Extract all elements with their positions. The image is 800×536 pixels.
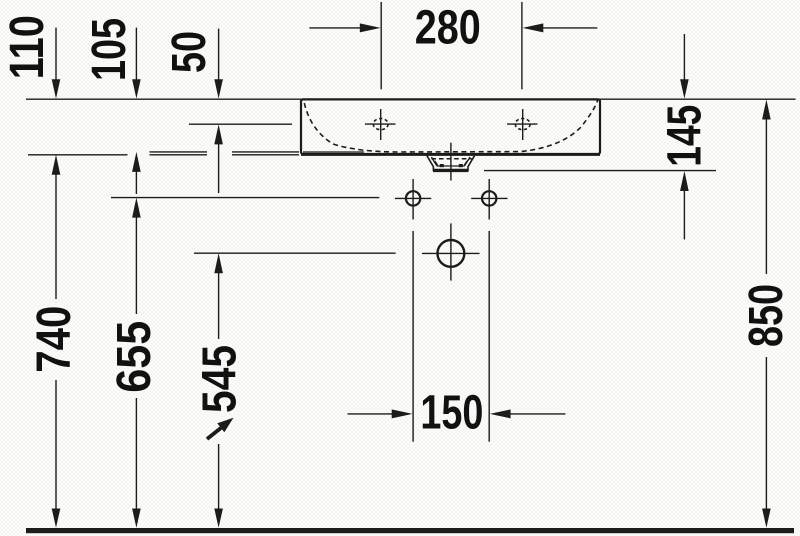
dimension 740 xyxy=(52,155,61,528)
reference line 545 level (y=253.2) xyxy=(194,252,396,254)
svg-text:50: 50 xyxy=(163,31,216,73)
svg-text:740: 740 xyxy=(28,306,81,373)
reference line 105 level (y=152) xyxy=(150,151,300,153)
overflow hole (large circle) xyxy=(422,223,480,280)
dimension 110 xyxy=(52,28,61,99)
basin outline xyxy=(301,99,600,154)
svg-text:105: 105 xyxy=(83,18,136,81)
dimension 545 xyxy=(207,253,234,528)
reference line 655 level (y=197.6) xyxy=(111,197,379,199)
left faucet hole xyxy=(365,109,396,140)
svg-text:110: 110 xyxy=(1,15,54,79)
svg-text:655: 655 xyxy=(108,321,161,393)
reference line 110/740 level (y=154.8) xyxy=(28,154,299,156)
floor line xyxy=(26,528,794,533)
reference line 145 level (y=170.6) xyxy=(484,170,716,172)
svg-text:280: 280 xyxy=(415,2,481,55)
right faucet hole xyxy=(507,109,538,140)
drain outlet xyxy=(427,156,475,171)
dimension 150 xyxy=(348,231,566,442)
svg-text:150: 150 xyxy=(420,387,483,440)
svg-text:545: 545 xyxy=(194,345,247,413)
basin interior dashed profile xyxy=(304,101,597,153)
left mounting hole xyxy=(395,179,431,220)
faucet axis reference line (50 level, y=124) xyxy=(189,123,292,125)
dimension 105 xyxy=(132,28,141,194)
dimension 145 xyxy=(680,34,689,239)
dimension 850 xyxy=(762,100,771,528)
top reference line (850 level, y=99) xyxy=(26,98,796,100)
oblique pointer arrow of 545 xyxy=(207,428,222,440)
svg-text:145: 145 xyxy=(658,105,711,167)
drain centerline xyxy=(450,143,452,181)
right mounting hole xyxy=(471,179,507,220)
svg-text:850: 850 xyxy=(740,284,793,347)
dimension 655 xyxy=(132,198,141,528)
dimension 50 xyxy=(214,29,223,193)
dimension 280 xyxy=(309,2,597,89)
